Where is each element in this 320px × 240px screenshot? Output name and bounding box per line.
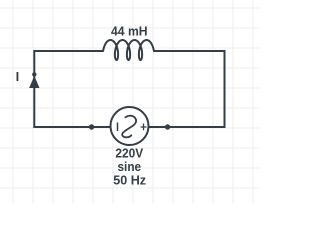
AC voltage source V1 circle body (111, 107, 149, 145)
wire: right loop (inductor right lead, top-right corner, right side, bottom-right corner, to source + terminal) (149, 51, 225, 127)
svg-text:I: I (16, 69, 20, 84)
label: 220V / sine / 50 Hz under source (113, 146, 146, 188)
source sine squiggle (inside circle) (122, 116, 136, 138)
svg-text:50 Hz: 50 Hz (113, 173, 146, 188)
svg-text:44 mH: 44 mH (111, 24, 148, 39)
source plus sign (inside circle, right) (141, 124, 147, 131)
source minus-terminal bar (inside circle, left) (117, 123, 119, 132)
current arrow on left wire (pointing up) : circle tip (32, 72, 36, 76)
wire: left loop (inductor left lead, top-left corner, left side, bottom-left corner, to source - terminal) (34, 51, 110, 127)
current arrow on left wire (pointing up) : triangle head (29, 76, 39, 88)
label: I current designator (16, 69, 20, 84)
label: 44 mH value of inductor (111, 24, 148, 39)
junction dot (left of source) (89, 124, 94, 129)
junction dot (right of source) (165, 124, 170, 129)
inductor L1 coil (44 mH) (103, 40, 154, 60)
